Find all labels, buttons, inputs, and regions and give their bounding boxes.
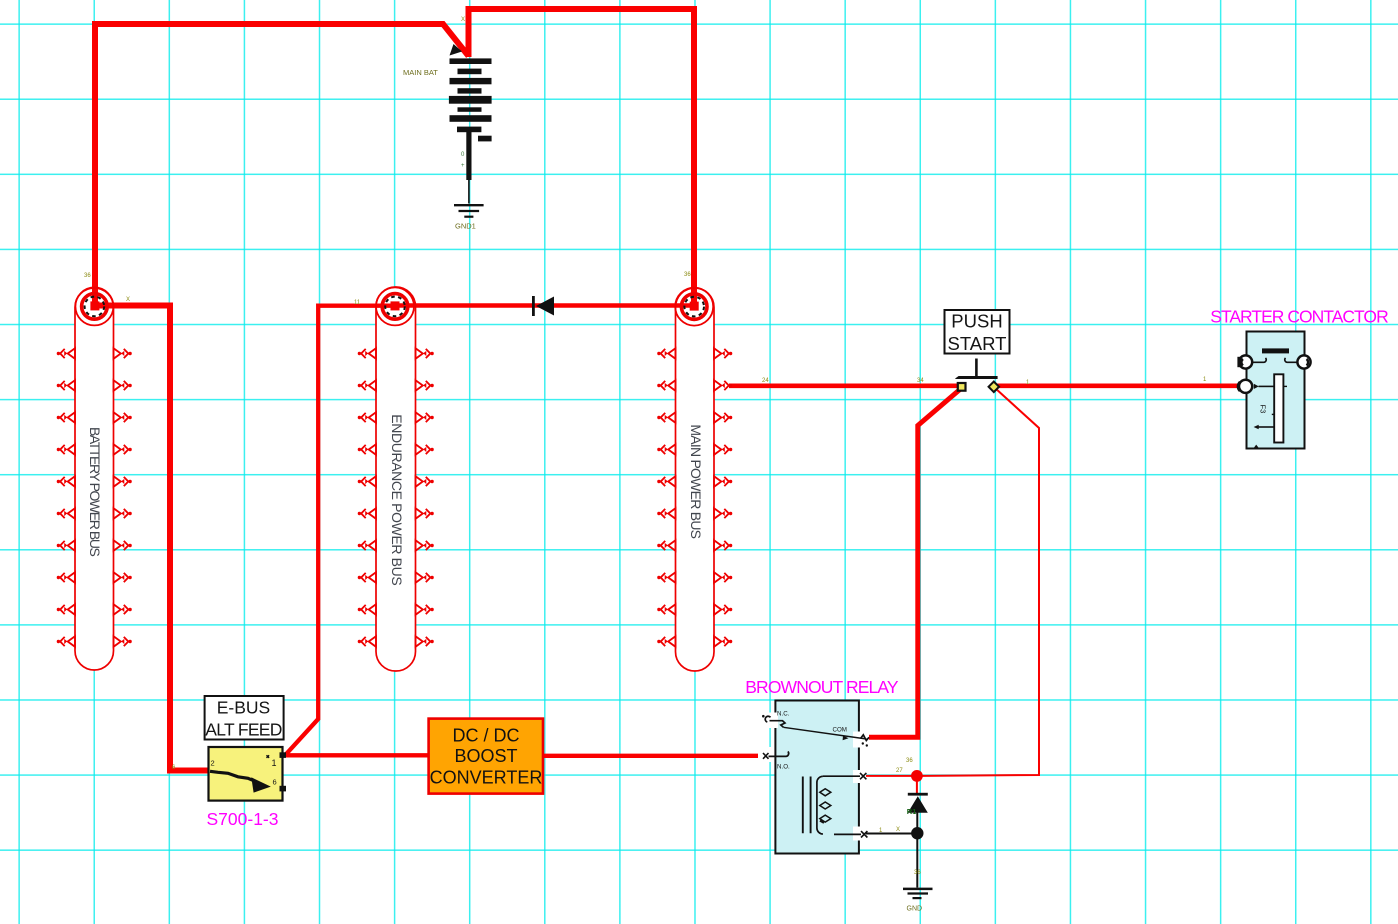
- svg-text:X: X: [896, 827, 900, 833]
- svg-text:36: 36: [906, 758, 913, 764]
- svg-text:36: 36: [914, 870, 921, 876]
- ground GND1: [454, 205, 484, 230]
- tiny pin labels near relay: [879, 758, 921, 876]
- contact hooks: [1252, 358, 1266, 362]
- relay N.O. contact: [763, 753, 769, 759]
- tiny pin number labels on wires: [84, 17, 1207, 386]
- svg-text:27: 27: [896, 768, 903, 774]
- contact pin (diamond): [989, 382, 999, 392]
- svg-text:DC / DC: DC / DC: [453, 726, 520, 746]
- switch pin stubs: [280, 752, 287, 758]
- svg-text:MAIN POWER BUS: MAIN POWER BUS: [688, 424, 704, 538]
- wire black junction down to ground GND: [916, 838, 918, 888]
- contactor pin top-left: [1239, 355, 1252, 368]
- wire ENDURANCE POWER BUS to E-BUS ALT FEED pin 1: [285, 306, 394, 756]
- svg-text:2: 2: [211, 759, 215, 768]
- bus BATTERY POWER BUS: [57, 287, 132, 670]
- wire ENDURANCE bus to MAIN bus through diode: [396, 303, 694, 307]
- svg-text:STARTER CONTACTOR: STARTER CONTACTOR: [1210, 307, 1388, 327]
- wire relay coil top pin to junction: [866, 775, 912, 777]
- svg-text:1: 1: [272, 758, 277, 768]
- svg-text:ALT FEED: ALT FEED: [205, 720, 281, 740]
- wire battery+ up and over to MAIN POWER BUS: [469, 9, 695, 304]
- svg-text:+: +: [461, 163, 465, 169]
- wire junction down to suppression diode: [916, 779, 918, 794]
- lower lead and arrow: [1259, 426, 1275, 428]
- bus body fills (under wires): [75, 288, 114, 670]
- relay coil winding: [817, 776, 823, 834]
- polarity arrow marker: [450, 44, 463, 56]
- svg-text:MAIN BAT: MAIN BAT: [403, 68, 438, 77]
- wire PUSH START right contact down to coil junction (thin): [922, 388, 1039, 776]
- svg-text:E-BUS: E-BUS: [217, 698, 270, 718]
- bus MAIN POWER BUS: [657, 288, 732, 671]
- svg-text:GND1: GND1: [455, 222, 476, 231]
- contactor pin top-right: [1297, 355, 1310, 368]
- coil slot: [1274, 374, 1283, 442]
- converter DC/DC BOOST CONVERTER: [429, 719, 543, 794]
- junction (red): [911, 770, 923, 782]
- contact pin (circle): [958, 383, 966, 391]
- svg-text:X: X: [461, 17, 465, 23]
- svg-text:1: 1: [1203, 377, 1207, 383]
- contactor coil pin (left middle): [1239, 380, 1252, 393]
- svg-text:24: 24: [762, 378, 769, 384]
- switch S700-1-3 label box E-BUS ALT FEED: [205, 696, 284, 740]
- push button PUSH START: [945, 310, 1010, 392]
- svg-text:BOOST: BOOST: [454, 746, 517, 766]
- node: bus1 feed ring: [75, 287, 113, 325]
- svg-text:34: 34: [917, 378, 924, 384]
- switch lever arrow: [210, 771, 254, 781]
- battery negative lead: [468, 180, 470, 204]
- button actuator: [975, 359, 978, 377]
- wire PUSH START right contact to STARTER CONTACTOR coil pin: [997, 383, 1245, 388]
- svg-text:N.C.: N.C.: [777, 711, 790, 718]
- ground GND: [903, 889, 933, 913]
- relay COM pin: [861, 735, 870, 741]
- svg-text:F3: F3: [1259, 405, 1268, 414]
- starter contactor body: [1237, 332, 1310, 449]
- wire BATTERY POWER BUS to E-BUS ALT FEED pin 2: [95, 306, 209, 771]
- wire PUSH START left contact down to BROWNOUT RELAY COM: [869, 389, 961, 738]
- wire relay coil bottom pin to black junction: [866, 833, 912, 835]
- svg-text:11: 11: [354, 300, 361, 306]
- wire battery+ to top-left corner to BATTERY POWER BUS: [95, 24, 469, 304]
- wire DC/DC converter to BROWNOUT RELAY N.O.: [542, 754, 763, 758]
- relay coil leads and X pins: [823, 775, 860, 777]
- bottom pin marker: [1254, 445, 1260, 449]
- junction (black): [911, 827, 923, 839]
- node: bus3 feed ring: [675, 288, 713, 326]
- svg-text:BROWNOUT RELAY: BROWNOUT RELAY: [745, 677, 899, 697]
- switch S700-1-3 body: [209, 747, 287, 801]
- wire MAIN POWER BUS to PUSH START left contact: [729, 383, 958, 388]
- svg-text:ENDURANCE POWER BUS: ENDURANCE POWER BUS: [389, 414, 405, 585]
- svg-text:S700-1-3: S700-1-3: [207, 809, 279, 829]
- svg-text:CONVERTER: CONVERTER: [430, 767, 543, 787]
- svg-text:BATTERY POWER BUS: BATTERY POWER BUS: [87, 427, 103, 557]
- svg-text:6: 6: [273, 778, 277, 787]
- battery MAIN BAT: [403, 44, 492, 204]
- diode (coil suppression): [907, 793, 928, 816]
- relay coil core: [803, 777, 811, 834]
- svg-text:0: 0: [461, 152, 465, 158]
- node: bus2 feed ring: [376, 287, 414, 325]
- relay armature lever: [783, 727, 866, 739]
- svg-text:GND: GND: [907, 906, 923, 913]
- coil arrow and lead: [1254, 384, 1259, 389]
- wire E-BUS ALT FEED pin1 to DC/DC converter: [285, 753, 429, 757]
- svg-text:N.O.: N.O.: [777, 764, 790, 771]
- wire suppression diode to black junction: [916, 812, 918, 828]
- bus ENDURANCE POWER BUS: [358, 287, 434, 671]
- svg-text:X: X: [126, 297, 130, 303]
- svg-text:COM: COM: [833, 727, 847, 734]
- svg-text:R1: R1: [907, 807, 917, 816]
- relay BROWNOUT RELAY body: [758, 701, 869, 854]
- svg-text:START: START: [948, 333, 1007, 354]
- relay N.C. contact: [765, 716, 770, 722]
- diode (bus tie, ENDURANCE to MAIN): [532, 296, 554, 316]
- svg-text:PUSH: PUSH: [951, 311, 1002, 332]
- svg-text:36: 36: [84, 273, 91, 279]
- svg-text:36: 36: [684, 272, 691, 278]
